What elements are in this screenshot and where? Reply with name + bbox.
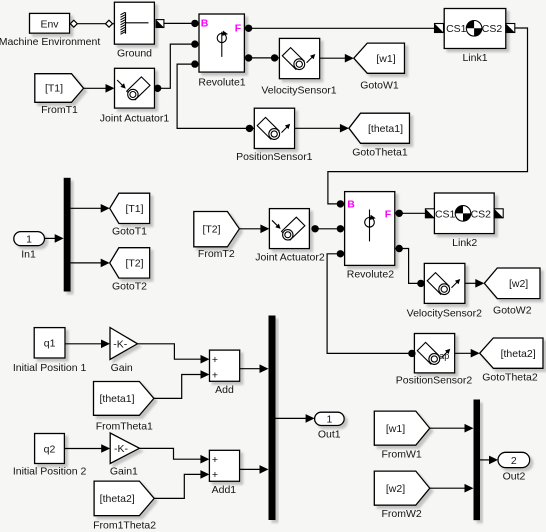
svg-text:Gain1: Gain1 <box>110 466 138 478</box>
svg-text:[T1]: [T1] <box>125 203 143 215</box>
wire Env to Ground <box>70 23 115 25</box>
wire VelocitySensor1 to GotoW1 <box>320 54 354 63</box>
wire In1 to Demux <box>45 234 64 243</box>
svg-text:VelocitySensor1: VelocitySensor1 <box>261 84 336 96</box>
svg-text:Revolute1: Revolute1 <box>198 76 245 88</box>
port dot Revolute1 F <box>245 25 252 32</box>
label Add1 <box>212 484 237 496</box>
wire Revolute1 F to Link1 <box>244 27 434 29</box>
label Out1 <box>318 428 341 440</box>
svg-text:CS1: CS1 <box>446 23 467 35</box>
port dot PositionSensor1 in <box>246 125 253 132</box>
label Joint Actuator2 <box>255 252 325 264</box>
svg-text:Revolute2: Revolute2 <box>347 269 394 281</box>
svg-text:q2: q2 <box>44 443 56 455</box>
block From FromW2 <box>374 471 430 505</box>
port dot Revolute2 B <box>337 200 344 207</box>
block Link2 <box>434 193 494 234</box>
svg-text:Gain: Gain <box>111 362 133 374</box>
svg-text:From1Theta2: From1Theta2 <box>93 519 156 531</box>
block Joint Actuator1 <box>115 68 155 108</box>
connection port Link2 CS1 <box>425 209 434 218</box>
svg-text:2: 2 <box>511 455 517 467</box>
wire Ground to Revolute1 B <box>164 22 199 24</box>
label FromW1 <box>381 448 421 460</box>
svg-text:PositionSensor2: PositionSensor2 <box>396 374 473 386</box>
wire From1Theta2 to Add1 in2 <box>154 470 209 498</box>
svg-text:Ground: Ground <box>117 48 152 60</box>
port dot Revolute1 B <box>191 20 198 27</box>
svg-text:Add1: Add1 <box>212 484 237 496</box>
mux bar 2 <box>474 400 481 521</box>
port dot Revolute1 L3 <box>191 60 198 67</box>
block From From1Theta2 <box>94 481 154 516</box>
connection port Link1 CS2 <box>506 24 515 33</box>
wire Revolute2 R2 to VelocitySensor2 <box>395 249 425 284</box>
block Joint Actuator2 <box>269 209 309 249</box>
svg-text:[theta2]: [theta2] <box>501 348 536 360</box>
block Ground <box>114 2 154 44</box>
svg-text:1: 1 <box>326 414 332 426</box>
block Link1 <box>444 9 506 49</box>
block Goto GotoT1 <box>110 193 150 223</box>
block Goto GotoTheta2 <box>480 338 543 368</box>
wire Mux2 to Out2 <box>480 456 498 465</box>
wire Mux to Out1 <box>276 414 315 423</box>
svg-text:GotoTheta2: GotoTheta2 <box>482 371 538 383</box>
label GotoT2 <box>112 280 147 292</box>
wire Joint Actuator1 to Revolute1 L2 <box>158 44 199 88</box>
label GotoTheta2 <box>482 371 538 383</box>
svg-text:FromW1: FromW1 <box>381 448 421 460</box>
svg-text:[w2]: [w2] <box>386 483 405 495</box>
svg-text:PositionSensor1: PositionSensor1 <box>236 151 313 163</box>
svg-text:Link1: Link1 <box>462 52 487 64</box>
svg-text:Joint Actuator2: Joint Actuator2 <box>255 252 325 264</box>
wire Demux to GotoT1 <box>71 204 110 213</box>
svg-text:+: + <box>212 454 218 466</box>
label PositionSensor1 <box>236 151 313 163</box>
wire Joint Actuator2 to Revolute2 L2 <box>315 228 345 230</box>
block Outport Out2 <box>498 452 530 467</box>
svg-text:GotoT2: GotoT2 <box>112 280 147 292</box>
svg-text:[theta1]: [theta1] <box>99 393 134 405</box>
wire Gain1 to Add1 in1 <box>140 448 210 463</box>
port dot Revolute2 F <box>396 210 403 217</box>
label GotoW1 <box>360 80 399 92</box>
port dot Revolute1 R2 <box>245 54 252 61</box>
svg-text:+: + <box>212 469 218 481</box>
block PositionSensor2 <box>414 334 454 373</box>
port dot Revolute1 L2 <box>191 40 198 47</box>
label Revolute1 <box>198 76 245 88</box>
svg-text:Out1: Out1 <box>318 428 341 440</box>
block Initial Position 2 (q2) <box>35 434 65 464</box>
label VelocitySensor2 <box>407 308 482 320</box>
svg-text:F: F <box>235 23 242 35</box>
wire FromT2 to Joint Actuator2 <box>239 225 269 234</box>
svg-text:GotoTheta1: GotoTheta1 <box>352 146 408 158</box>
wire Revolute2 L3 to PositionSensor2 <box>327 254 414 354</box>
svg-text:-K-: -K- <box>114 443 129 455</box>
svg-text:[T1]: [T1] <box>45 83 63 95</box>
svg-text:[w2]: [w2] <box>509 278 528 290</box>
svg-text:1: 1 <box>26 233 32 245</box>
label GotoT1 <box>112 225 147 237</box>
label FromW2 <box>381 508 421 520</box>
label From1Theta2 <box>93 519 156 531</box>
block PositionSensor1 <box>254 108 294 148</box>
svg-text:B: B <box>201 17 209 29</box>
wire VelocitySensor2 to GotoW2 <box>465 279 484 288</box>
block Initial Position 1 (q1) <box>34 328 65 358</box>
wire PositionSensor1 to GotoTheta1 <box>295 124 349 133</box>
label In1 <box>21 249 36 261</box>
svg-text:Link2: Link2 <box>452 237 477 249</box>
block Revolute1 <box>199 14 244 72</box>
mux bar 1 <box>269 316 276 521</box>
svg-text:-K-: -K- <box>113 338 128 350</box>
label Gain1 <box>110 466 138 478</box>
block Goto GotoTheta1 <box>349 113 410 143</box>
wire Add to Mux <box>240 364 269 373</box>
label Initial Position 2 <box>13 466 87 478</box>
port dot Revolute2 R2 <box>396 245 403 252</box>
label Ground <box>117 48 152 60</box>
wire Revolute1 R2 to VelocitySensor1 <box>244 57 279 59</box>
label Out2 <box>503 471 526 483</box>
svg-text:ap: ap <box>439 351 449 361</box>
label VelocitySensor1 <box>261 84 336 96</box>
svg-text:FromW2: FromW2 <box>381 508 421 520</box>
svg-text:CS2: CS2 <box>482 23 503 35</box>
block Outport Out1 <box>315 412 345 425</box>
label FromT2 <box>198 248 235 260</box>
wire q1 to Gain <box>65 340 110 349</box>
svg-text:Out2: Out2 <box>503 471 526 483</box>
wire Revolute1 L3 to PositionSensor1 <box>177 64 254 128</box>
label Link1 <box>462 52 487 64</box>
svg-text:[theta1]: [theta1] <box>368 123 403 135</box>
svg-text:Env: Env <box>40 18 59 30</box>
block Goto GotoW2 <box>484 268 540 299</box>
block Add <box>210 350 240 381</box>
svg-text:Initial Position 2: Initial Position 2 <box>13 466 87 478</box>
wire FromW1 to Mux2 <box>430 424 474 433</box>
svg-text:GotoW1: GotoW1 <box>360 80 399 92</box>
label Link2 <box>452 237 477 249</box>
svg-text:+: + <box>212 369 218 381</box>
block Add1 <box>209 450 239 481</box>
label GotoTheta1 <box>352 146 408 158</box>
svg-text:GotoW2: GotoW2 <box>493 305 532 317</box>
port dot VelocitySensor2 in <box>417 280 424 287</box>
svg-text:Machine Environment: Machine Environment <box>0 36 100 48</box>
port dot Revolute2 L3 <box>337 250 344 257</box>
port dot Joint Actuator2 out <box>311 225 318 232</box>
label FromT1 <box>41 104 78 116</box>
connection port Link2 CS2 <box>494 209 503 218</box>
wire FromTheta1 to Add in2 <box>154 370 210 398</box>
svg-text:F: F <box>385 208 392 220</box>
svg-text:FromTheta1: FromTheta1 <box>96 421 153 433</box>
connector diamond 2 <box>106 20 113 27</box>
block Goto GotoW1 <box>354 43 405 73</box>
wire Gain to Add in1 <box>138 344 210 364</box>
svg-text:Initial Position 1: Initial Position 1 <box>13 362 87 374</box>
block Inport In1 <box>14 232 45 246</box>
label FromTheta1 <box>96 421 153 433</box>
svg-text:[theta2]: [theta2] <box>100 493 135 505</box>
block From FromT1 <box>35 74 84 103</box>
wire Demux to GotoT2 <box>71 259 110 268</box>
wire PositionSensor2 to GotoTheta2 <box>455 349 480 358</box>
block From FromW1 <box>374 411 430 445</box>
port dot Revolute2 L2 <box>337 225 344 232</box>
svg-text:In1: In1 <box>21 249 36 261</box>
svg-text:[T2]: [T2] <box>125 258 143 270</box>
block Machine Environment (Env) <box>30 13 70 33</box>
demux bar <box>64 178 71 292</box>
svg-text:[w1]: [w1] <box>376 53 395 65</box>
label Revolute2 <box>347 269 394 281</box>
svg-text:Joint Actuator1: Joint Actuator1 <box>100 112 170 124</box>
label Initial Position 1 <box>13 362 87 374</box>
block From FromT2 <box>194 212 240 247</box>
port dot VelocitySensor1 in <box>271 54 278 61</box>
label Machine Environment <box>0 36 100 48</box>
svg-text:FromT1: FromT1 <box>41 104 78 116</box>
label PositionSensor2 <box>396 374 473 386</box>
svg-text:CS2: CS2 <box>471 208 492 220</box>
label Gain <box>111 362 133 374</box>
label GotoW2 <box>493 305 532 317</box>
svg-text:q1: q1 <box>44 338 56 350</box>
connection port Link1 CS1 <box>435 24 444 33</box>
block Goto GotoT2 <box>110 248 150 278</box>
svg-text:[T2]: [T2] <box>202 224 220 236</box>
label Add <box>215 384 234 396</box>
label Joint Actuator1 <box>100 112 170 124</box>
svg-text:B: B <box>347 198 355 210</box>
svg-text:[w1]: [w1] <box>386 423 405 435</box>
connection port of Ground <box>156 20 164 28</box>
wire Add1 to Mux <box>240 465 269 474</box>
connector diamond 1 <box>70 20 77 27</box>
port dot PositionSensor2 in <box>408 350 415 357</box>
wire FromT1 to Joint Actuator1 <box>84 84 115 93</box>
svg-text:+: + <box>212 354 218 366</box>
svg-text:Add: Add <box>215 384 234 396</box>
block Gain <box>110 328 138 360</box>
svg-text:FromT2: FromT2 <box>198 248 235 260</box>
svg-text:VelocitySensor2: VelocitySensor2 <box>407 308 482 320</box>
block Gain1 <box>110 433 139 464</box>
wire q2 to Gain1 <box>64 444 110 453</box>
wire Link1 CS2 to Revolute2 B <box>328 28 528 204</box>
block VelocitySensor2 <box>424 263 465 303</box>
block From FromTheta1 <box>94 382 154 416</box>
wire Revolute2 F to Link2 <box>395 212 426 214</box>
wire FromW2 to Mux2 <box>430 484 474 493</box>
block VelocitySensor1 <box>279 38 319 78</box>
block Revolute2 <box>345 192 395 266</box>
svg-text:CS1: CS1 <box>435 208 456 220</box>
port dot Joint Actuator1 out <box>154 85 161 92</box>
svg-text:GotoT1: GotoT1 <box>112 225 147 237</box>
